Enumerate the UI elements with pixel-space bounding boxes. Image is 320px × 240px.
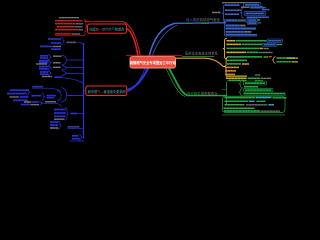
label green box 1 text: [245, 82, 265, 84]
label red item 1: [55, 20, 83, 22]
label blue row 10: [226, 34, 258, 36]
label orange row d: [225, 66, 239, 68]
svg-text:城镇燃气安全专项整治三年行动: 城镇燃气安全专项整治三年行动: [130, 60, 177, 65]
brace B1: [48, 54, 52, 59]
wire A connector: [77, 42, 84, 46]
label green row 4 long: [244, 93, 286, 95]
wire node to spine: [84, 90, 86, 92]
wire red branch curve lower: [127, 29, 139, 57]
label far row 1: [277, 57, 296, 59]
wire F connector: [67, 94, 84, 96]
bracket F big2: [62, 88, 67, 103]
label I row2: [50, 124, 58, 126]
label green row 5: [225, 97, 256, 99]
wire blue row 8 underline: [226, 29, 257, 31]
label blue row 6 grey: [238, 19, 245, 21]
label green row 3 text: [245, 89, 272, 91]
label blue box 1 text: [245, 4, 260, 6]
label orange row e: [225, 70, 236, 72]
label H row2: [54, 112, 66, 114]
label green row a: [227, 56, 262, 58]
label ya row1 yellow: [227, 40, 236, 42]
brace J: [79, 135, 83, 141]
wire blue right branch curve edge: [152, 25, 177, 56]
label blue box 4 text: [248, 22, 256, 24]
label H far row2: [21, 104, 30, 106]
wire blue right branch curve: [149, 24, 174, 57]
svg-text:住建部—城市燃气管道改: 住建部—城市燃气管道改: [89, 27, 125, 32]
label C text: [53, 66, 61, 68]
label I text right: [68, 126, 80, 128]
label F row3 grey: [10, 96, 20, 98]
topic box green 1: [244, 81, 267, 85]
wire red line over central node: [126, 54, 182, 56]
label cyan row 6: [249, 100, 255, 102]
label F row2: [7, 93, 27, 95]
label blue row 3: [225, 9, 241, 11]
label cyan row 5: [256, 97, 272, 99]
label F right text2: [47, 97, 55, 99]
label J row1: [72, 135, 79, 137]
label red item 3 grey tail: [75, 26, 83, 28]
label ya row2 yellow: [227, 43, 242, 45]
label red item 2 grey tail: [76, 23, 83, 25]
wire blue row 2 underline: [250, 7, 265, 9]
brace yellow subtree: [223, 57, 228, 77]
wire green stub row1: [227, 80, 229, 82]
svg-text:城市燃气—管道老化更新改: 城市燃气—管道老化更新改: [88, 89, 127, 94]
brace D: [48, 71, 52, 76]
label far row 2: [277, 61, 292, 63]
label blue row 2 grey: [241, 6, 250, 8]
label ya row4 yellow: [227, 51, 247, 53]
label green row 2: [244, 86, 258, 88]
central topic node: [130, 57, 177, 68]
label blue tail row 6: [258, 22, 261, 24]
label ya row2 green: [242, 43, 263, 45]
brace H: [65, 108, 69, 121]
wire J underline: [70, 140, 84, 142]
label F right text1: [47, 95, 57, 97]
wire red branch curve upper: [122, 21, 141, 56]
wire blue row 6 underline: [226, 20, 245, 22]
bracket C big: [62, 66, 66, 71]
label blue row 9 grey: [244, 31, 251, 33]
label far row 2 yellow tail: [292, 61, 299, 63]
label red item 5 grey part: [72, 33, 80, 35]
label H far row1: [24, 101, 31, 103]
label blue row 7 grey: [240, 24, 245, 26]
brace I: [58, 121, 62, 129]
label D row2: [40, 73, 49, 75]
label B text1: [53, 55, 62, 57]
wire green link dashes on blue line: [186, 22, 209, 24]
label A row3 grey: [53, 46, 62, 48]
label grey bits row f tail: [255, 74, 260, 76]
label F row4: [13, 99, 28, 101]
topic box blue 2: [244, 12, 266, 16]
label grey row 7: [246, 104, 268, 106]
topic node red left: [86, 86, 127, 96]
label olive bar: [226, 75, 247, 77]
brace C: [48, 66, 52, 70]
big green box outline: [223, 96, 286, 112]
label H far mid grey: [45, 101, 56, 103]
label blue row 6: [226, 19, 238, 21]
label B row1: [40, 55, 48, 57]
label green row 8: [224, 107, 255, 109]
wire green branch curve edge: [166, 69, 185, 97]
label H row4 grey: [54, 118, 65, 120]
label ya row4 green: [247, 51, 259, 53]
label I row1: [50, 121, 58, 123]
label ya row3 yellow: [260, 47, 264, 49]
label H row1: [54, 109, 66, 111]
label green row 1 far tail: [255, 80, 263, 82]
wire red item 5 underline: [55, 33, 86, 36]
wire E curve: [63, 78, 84, 83]
brace A: [61, 38, 65, 45]
label blue row 5: [247, 16, 270, 18]
label red item 3: [57, 26, 74, 28]
wire blue row 7 underline: [226, 25, 246, 27]
wire I underline: [68, 128, 84, 130]
label grey row 9 tail: [261, 110, 281, 112]
topic node red top-left: [88, 24, 127, 33]
label green row 7: [225, 104, 245, 106]
brace F2: [42, 93, 46, 100]
label F mid text: [32, 95, 42, 97]
label blue box 3 text: [248, 19, 256, 21]
label ya row3 grey: [264, 48, 269, 50]
label B row4: [39, 62, 49, 64]
wire blue right branch line: [173, 22, 226, 25]
label green bits row 6: [258, 19, 261, 21]
label green row c: [227, 63, 241, 65]
label red item 4 grey tail: [79, 29, 84, 31]
wire blue row 9 underline: [226, 32, 252, 34]
label ya row2 green tail: [277, 44, 283, 46]
wire blue left branch curve edge: [128, 69, 146, 92]
label H text right: [71, 113, 78, 115]
label B text2: [53, 62, 61, 64]
wire spine vertical: [83, 43, 85, 139]
label D row1: [40, 71, 49, 73]
label green row 6: [225, 100, 249, 102]
label green row 1: [229, 79, 241, 81]
label E text: [55, 76, 63, 78]
label yellow row f: [225, 73, 235, 75]
label G text: [32, 86, 43, 88]
label green row g mid: [248, 77, 261, 79]
label H row3: [54, 115, 66, 117]
wire blue subtree vertical: [223, 19, 225, 36]
wire green bottom line: [222, 114, 285, 116]
label red dots row a: [269, 56, 273, 58]
label A row4: [51, 48, 61, 50]
wire H connector: [78, 113, 84, 115]
label B row2: [40, 57, 48, 59]
brace green 2: [239, 89, 243, 96]
brace F: [27, 89, 31, 95]
label blue row 2: [251, 6, 264, 8]
svg-text:强化隐患排查整改治: 强化隐患排查整改治: [187, 91, 218, 96]
label ya row1 green: [236, 40, 267, 42]
label B row3: [39, 60, 49, 62]
label J row2: [72, 138, 80, 140]
label C row1: [39, 66, 49, 68]
label box ya2 text: [264, 44, 276, 46]
wire H far line: [44, 103, 63, 107]
svg-text:深入推进城镇燃气安全: 深入推进城镇燃气安全: [186, 17, 221, 22]
brace blue subtree: [222, 5, 226, 23]
wire B connector: [66, 59, 83, 61]
label blue row 4: [225, 13, 239, 15]
wire green dot row 2: [263, 7, 266, 9]
label yellow row c tail: [242, 63, 249, 65]
bracket F big1: [57, 90, 61, 101]
brace yellow far right: [272, 57, 276, 64]
topic box blue ya2: [263, 43, 277, 46]
label B row5 grey: [36, 63, 47, 65]
brace yellow group a: [223, 38, 227, 59]
label F row3b: [20, 96, 28, 98]
label green row a tail: [264, 56, 269, 58]
label I row3 grey: [50, 127, 58, 129]
label box ya1 text: [268, 40, 281, 42]
label red item 5 text: [55, 33, 72, 35]
brace red topic children: [84, 20, 88, 33]
label A row3: [40, 45, 52, 47]
bracket D big: [62, 71, 66, 76]
label grey annotation near brace: [212, 12, 221, 14]
label yellow row g: [226, 77, 247, 79]
wire green branch line: [186, 95, 227, 97]
label F row1: [10, 89, 30, 91]
label green row 1 tail: [242, 80, 247, 82]
label H far row2b: [31, 104, 40, 106]
label red item 4: [55, 29, 78, 31]
wire green vertical bracket: [226, 82, 228, 105]
wire green row 4 underline: [244, 94, 287, 96]
bracket B big: [62, 55, 67, 65]
wire D connector: [66, 72, 84, 74]
label A row1: [48, 38, 61, 40]
wire blue left branch curve: [128, 69, 149, 90]
label E grey: [42, 76, 52, 78]
label blue row 7: [226, 24, 240, 26]
topic box green row 3: [244, 88, 274, 91]
label green row 5 tail: [273, 97, 287, 99]
brace green 1: [239, 80, 243, 88]
label A text right: [67, 41, 77, 43]
wire green branch curve: [169, 69, 187, 96]
topic box blue 1: [244, 3, 262, 7]
label blue small right: [262, 9, 270, 11]
wire orange branch line: [176, 58, 223, 66]
wire C connector: [66, 66, 84, 68]
label grey annotation above red items: [59, 17, 79, 19]
label grey row g tail: [261, 77, 272, 79]
svg-text:压实企业安全主体责任: 压实企业安全主体责任: [185, 51, 219, 56]
label ya row3 green: [227, 47, 260, 49]
wire green link line right of node: [182, 56, 214, 58]
label green row 9: [224, 110, 260, 112]
brace B2: [48, 60, 52, 65]
label green row b: [227, 59, 247, 61]
label blue row 8: [226, 27, 257, 29]
topic box blue 4: [247, 22, 257, 24]
label blue box 2 text: [246, 12, 265, 14]
label green row 6 tail: [257, 100, 266, 102]
topic box blue 3: [247, 19, 257, 22]
label H far row1b: [32, 101, 40, 103]
wire red branch top line: [84, 20, 122, 22]
wire green stub mid: [222, 88, 227, 90]
label blue row 1: [225, 4, 240, 6]
brace blue row 6: [244, 19, 248, 22]
label A row2: [51, 42, 61, 44]
label far row 1 yellow bits: [287, 57, 298, 59]
label cyan row 7: [269, 104, 275, 106]
brace H far: [39, 101, 43, 105]
label ya row4 grey: [259, 52, 272, 54]
label blue row 9: [226, 31, 244, 33]
label C row2: [39, 68, 49, 70]
label red item 2: [55, 23, 76, 25]
topic box blue ya1: [267, 39, 283, 43]
brace blue inner: [240, 7, 244, 18]
wire blue row 10 underline: [226, 35, 258, 37]
wire G underline: [32, 88, 60, 91]
label blue rows annotation top: [222, 2, 259, 4]
